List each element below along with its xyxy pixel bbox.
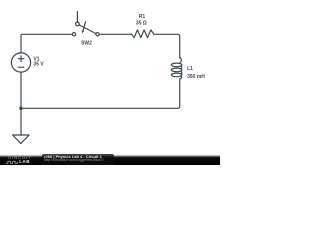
svg-text:R1: R1 — [139, 14, 146, 20]
resistor R1 zigzag — [132, 30, 154, 38]
minus sign of V1 — [18, 66, 24, 68]
switch SW2 actuation arrow — [83, 22, 86, 31]
svg-text:35 Ω: 35 Ω — [136, 20, 147, 26]
footer url text — [44, 159, 104, 163]
wire: top-left vertical rail up from V1 and top wire to switch left terminal — [21, 34, 72, 53]
switch SW2 lever — [79, 25, 96, 34]
wire: inductor bottom to bottom-right corner and bottom rail to junction — [21, 79, 180, 109]
footer title text — [44, 155, 102, 159]
ground — [13, 108, 30, 143]
svg-text:35 V: 35 V — [33, 62, 44, 68]
voltage source V1 — [11, 53, 30, 72]
footer bar — [0, 153, 220, 165]
wire: V1 bottom to junction node — [20, 72, 22, 108]
switch SW2 left terminal — [72, 33, 75, 36]
CircuitLab logo LAB — [19, 160, 30, 165]
svg-text:350 mH: 350 mH — [187, 74, 205, 80]
plus sign of V1 — [18, 56, 24, 62]
footer text badge — [42, 154, 114, 165]
CircuitLab logo squarewave — [0, 0, 220, 165]
svg-text:SW2: SW2 — [81, 40, 92, 46]
switch SW2 top terminal — [76, 22, 80, 26]
switch SW2 right terminal — [96, 33, 99, 36]
CircuitLab logo CIRCUIT — [8, 156, 32, 160]
switch SW2 arrowhead — [82, 30, 85, 33]
node junction dot — [19, 107, 23, 111]
switch SW2 top terminal stub — [76, 12, 78, 23]
svg-text:L1: L1 — [187, 66, 193, 72]
wire: switch right terminal to resistor — [99, 33, 131, 35]
inductor L1 coil — [180, 57, 182, 62]
wire: resistor to top-right corner down to inductor — [154, 34, 180, 58]
